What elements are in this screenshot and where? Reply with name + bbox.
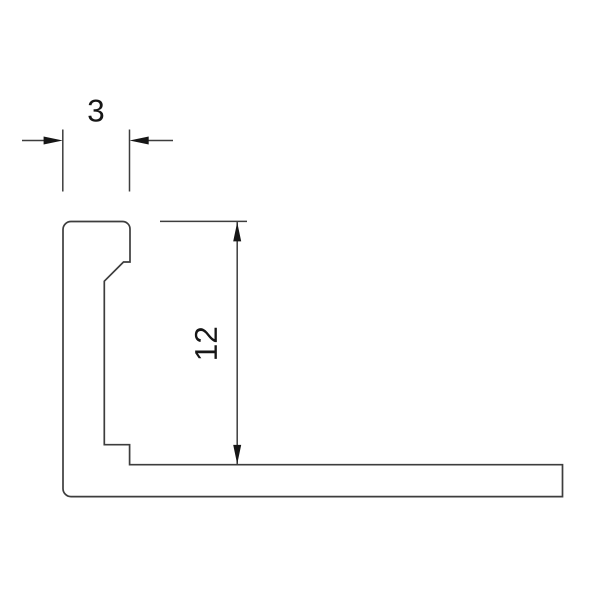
dimension 12: bottom arrowhead [233,445,241,464]
dimension 12: top reference line [160,220,247,222]
dimension 12: vertical dimension line [236,222,238,464]
dimension 3: right arrowhead [130,137,149,145]
dimension 3: right extension line [129,130,131,192]
profile outline (L-shaped tile trim cross-section) [63,222,563,497]
dimension 12: value label (rotated) [195,328,217,359]
dimension 3: left arrowhead [44,137,63,145]
dimension 3: right arrow tail [148,140,174,142]
dimension 12: top arrowhead [233,222,241,241]
dimension 3: value label [88,99,103,121]
dimension 3: left extension line [62,130,64,192]
dimension 3: left arrow tail [22,140,45,142]
